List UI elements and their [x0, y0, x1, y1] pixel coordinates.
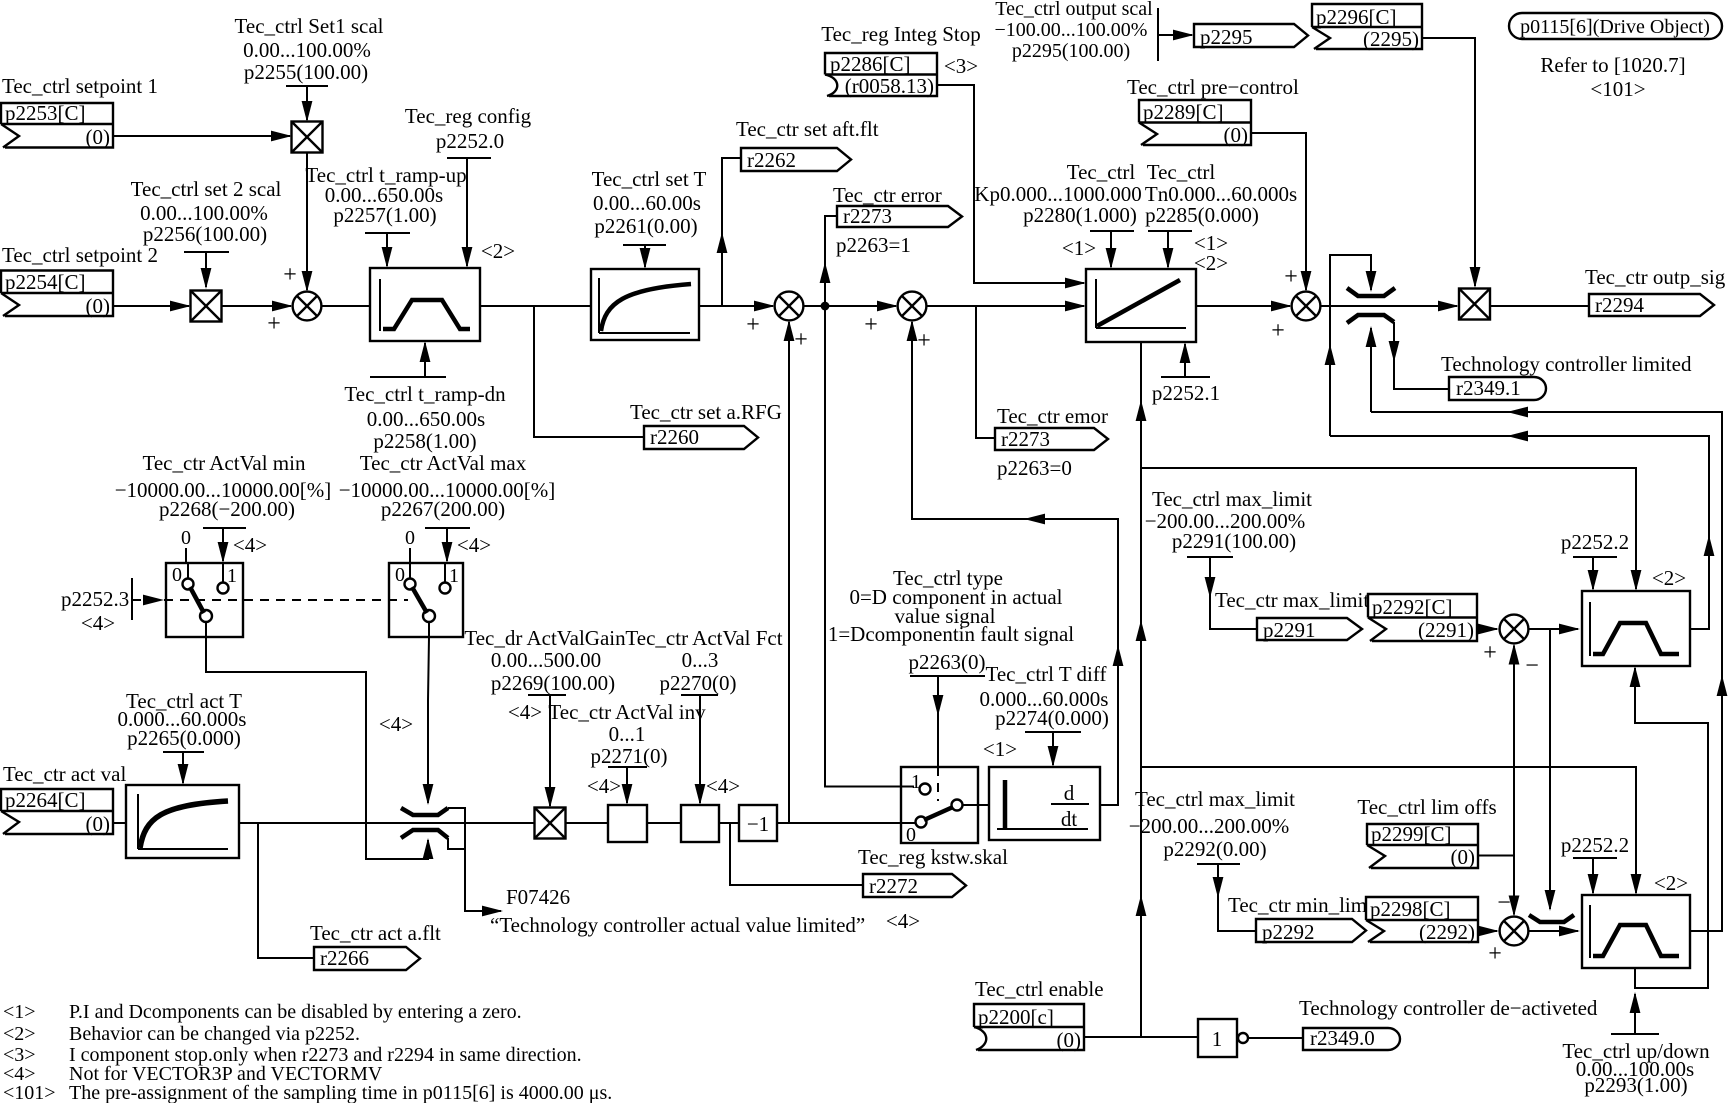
svg-text:1: 1 [1212, 1027, 1223, 1051]
wire p2295 stub to connector [1158, 34, 1192, 36]
svg-text:Tec_ctr act val: Tec_ctr act val [3, 762, 126, 786]
svg-text:p2256(100.00): p2256(100.00) [143, 222, 267, 246]
wire branch to r2260 [534, 306, 644, 437]
wire branch to min clamp [1549, 629, 1551, 909]
parameter connector p2292 [1256, 919, 1366, 944]
svg-text:Tec_ctr set aft.flt: Tec_ctr set aft.flt [736, 117, 879, 141]
multiplier output scaling [1459, 289, 1490, 320]
parameter connector p2291 [1257, 618, 1362, 642]
multiplier setpoint2 [191, 291, 222, 322]
svg-text:p2252.0: p2252.0 [436, 129, 504, 153]
svg-text:p2274(0.000): p2274(0.000) [995, 706, 1109, 730]
wire p2255 to multiplier [306, 86, 308, 120]
connector p2254[C] [1, 270, 113, 318]
switch D-component [901, 767, 989, 846]
ramp block min limit [1582, 895, 1690, 968]
parameter stub p2292 [1197, 863, 1240, 865]
svg-text:r2273: r2273 [1001, 427, 1050, 451]
output connector r2266 [314, 946, 420, 970]
wire p2271 to box [626, 767, 628, 803]
connector p2289[C] [1139, 100, 1251, 147]
svg-text:<101>: <101> [1590, 77, 1645, 101]
wire p2293 distribution [1635, 668, 1708, 988]
connector p2253[C] [1, 101, 113, 149]
svg-text:+: + [746, 312, 760, 338]
svg-text:Tec_ctr min_lim: Tec_ctr min_lim [1228, 893, 1367, 917]
wire p2267 to switch2 [446, 528, 448, 561]
wire p2254 to multiplier [113, 305, 189, 307]
svg-text:0...1: 0...1 [609, 722, 646, 746]
wire PID to summer3 [1196, 305, 1290, 307]
svg-text:Technology controller limited: Technology controller limited [1441, 352, 1692, 376]
summer3 PID+precontrol [1292, 292, 1321, 321]
svg-text:p2253[C]: p2253[C] [5, 101, 86, 125]
wire lower limit feed [1370, 328, 1372, 412]
wire multiplier4 to r2294 [1490, 305, 1589, 307]
wire switch1 output to lower bracket [206, 637, 428, 859]
svg-text:(0): (0) [86, 125, 111, 149]
parameter stub p2295 [1157, 8, 1159, 61]
svg-text:1=Dcomponentin fault signal: 1=Dcomponentin fault signal [828, 622, 1074, 646]
svg-text:Tec_ctrl set T: Tec_ctrl set T [592, 167, 707, 191]
svg-text:0: 0 [181, 527, 191, 549]
svg-text:−100.00...100.00%: −100.00...100.00% [995, 19, 1148, 41]
limiter lower bracket [1347, 315, 1394, 323]
label Tec_ctrl t_ramp-dn [370, 376, 446, 378]
svg-text:1: 1 [227, 565, 237, 587]
svg-text:p2252.2: p2252.2 [1561, 530, 1629, 554]
svg-text:r2273: r2273 [843, 204, 892, 228]
connector p2286[C] [825, 52, 937, 98]
svg-text:p2254[C]: p2254[C] [5, 270, 86, 294]
svg-text:p2264[C]: p2264[C] [5, 788, 86, 812]
svg-text:p2267(200.00): p2267(200.00) [381, 497, 505, 521]
wire summer2 to PID [926, 305, 1084, 307]
svg-text:0.00...500.00: 0.00...500.00 [491, 648, 601, 672]
output connector r2294 [1589, 293, 1714, 317]
svg-text:(2291): (2291) [1418, 618, 1474, 642]
svg-text:Tec_reg config: Tec_reg config [405, 104, 532, 128]
svg-text:(0): (0) [1224, 123, 1249, 147]
svg-text:p2263(0): p2263(0) [909, 650, 986, 674]
wire p2264 to smoothing [113, 822, 126, 824]
switch ActVal max [389, 563, 463, 637]
wire p2252.2 to upper ramp [1592, 557, 1594, 589]
svg-text:p2292(0.00): p2292(0.00) [1163, 837, 1266, 861]
svg-text:Tec_ctr set a.RFG: Tec_ctr set a.RFG [630, 400, 782, 424]
svg-text:<4>: <4> [886, 909, 920, 933]
parameter stub p2293 [1611, 1033, 1659, 1035]
wire p2263 to switch3 [937, 676, 939, 766]
svg-text:p2265(0.000): p2265(0.000) [127, 726, 241, 750]
svg-text:Tec_ctrl set 2 scal: Tec_ctrl set 2 scal [131, 177, 282, 201]
wire smoothing to summer1 [699, 305, 773, 307]
svg-text:Tec_ctr act a.flt: Tec_ctr act a.flt [310, 921, 441, 945]
summer setpoint1+setpoint2 [293, 292, 322, 321]
svg-text:+: + [794, 327, 808, 353]
wire upper limit feed [1330, 255, 1371, 436]
svg-text:r2266: r2266 [320, 946, 369, 970]
svg-text:p2258(1.00): p2258(1.00) [373, 429, 476, 453]
svg-text:+: + [283, 262, 297, 288]
svg-text:p2296[C]: p2296[C] [1316, 5, 1397, 29]
wire p2292 to connector [1218, 864, 1256, 931]
wire branch to r2272 [730, 823, 863, 885]
svg-text:Tec_ctrl pre−control: Tec_ctrl pre−control [1127, 75, 1299, 99]
wire RFG to smoothing [480, 305, 591, 307]
svg-text:0: 0 [405, 527, 415, 549]
box actval function [681, 805, 719, 842]
svg-text:r2294: r2294 [1595, 293, 1644, 317]
wire branch to r2266 [258, 823, 314, 958]
svg-text:p2291: p2291 [1263, 618, 1316, 642]
wire p2289 to summer3 [1251, 133, 1306, 290]
wire summer0 to RFG [321, 305, 370, 307]
parameter stub p2274 [1025, 731, 1081, 733]
svg-text:<2>: <2> [1194, 251, 1228, 275]
svg-text:0.00...100.00%: 0.00...100.00% [243, 38, 371, 62]
svg-text:r2349.1: r2349.1 [1456, 376, 1521, 400]
svg-text:<1>: <1> [983, 737, 1017, 761]
svg-text:Tec_ctr ActVal Fct: Tec_ctr ActVal Fct [625, 626, 782, 650]
output connector r2273 error [837, 204, 962, 228]
wire p2296 to multiplier4 [1422, 38, 1475, 286]
svg-text:−1: −1 [747, 812, 769, 836]
svg-text:Tec_ctrl max_limit: Tec_ctrl max_limit [1152, 487, 1312, 511]
parameter stub p2257 [365, 232, 410, 234]
wire p2280 to PID [1110, 231, 1112, 267]
actval limiter upper bracket [401, 808, 448, 815]
output connector r2260 [644, 425, 758, 449]
svg-text:p2299[C]: p2299[C] [1371, 822, 1452, 846]
svg-text:Tec_reg Integ Stop: Tec_reg Integ Stop [821, 22, 980, 46]
wire p2261 to smoothing [644, 245, 646, 267]
wire multiplier3 to box p2271 [566, 822, 609, 824]
svg-text:0...3: 0...3 [682, 648, 719, 672]
wire summer1 to summer2 [803, 305, 896, 307]
svg-text:Tec_dr ActValGain: Tec_dr ActValGain [464, 626, 626, 650]
svg-text:p2295(100.00): p2295(100.00) [1012, 40, 1130, 62]
svg-text:<4>: <4> [457, 533, 491, 557]
svg-text:p2252.1: p2252.1 [1152, 381, 1220, 405]
svg-text:p2285(0.000): p2285(0.000) [1145, 203, 1259, 227]
svg-text:p2269(100.00): p2269(100.00) [491, 671, 615, 695]
svg-text:Tec_ctrl lim offs: Tec_ctrl lim offs [1357, 795, 1496, 819]
svg-text:p2257(1.00): p2257(1.00) [333, 203, 436, 227]
wire enable branch to upper ramp [1141, 468, 1636, 589]
wire p2269 to multiplier3 [549, 695, 551, 806]
parameter stub p2252.2 upper [1573, 556, 1617, 558]
svg-text:F07426: F07426 [506, 885, 570, 909]
output connector r2349.1 [1449, 376, 1546, 400]
wire limiter fault to F07426 [448, 808, 501, 911]
svg-text:p2293(1.00): p2293(1.00) [1584, 1073, 1687, 1097]
parameter stub p2271 [608, 766, 647, 768]
svg-text:<2>: <2> [1654, 871, 1688, 895]
wire p2256 to multiplier [205, 252, 207, 287]
svg-text:−: − [1497, 890, 1511, 916]
svg-text:<4>: <4> [379, 712, 413, 736]
summer4 max limit [1500, 615, 1529, 644]
wire feedback to summer1 [788, 322, 790, 823]
svg-text:P.I and Dcomponents can be dis: P.I and Dcomponents can be disabled by e… [69, 1001, 522, 1023]
svg-text:Tec_ctrl max_limit: Tec_ctrl max_limit [1135, 787, 1295, 811]
svg-text:Technology controller de−activ: Technology controller de−activeted [1299, 996, 1598, 1020]
svg-text:The pre-assignment of the samp: The pre-assignment of the sampling time … [69, 1082, 612, 1103]
wire p2274 to d/dt [1052, 732, 1054, 765]
summer2 D-component add [898, 292, 927, 321]
svg-text:r2262: r2262 [747, 148, 796, 172]
connector p2296[C] [1312, 4, 1422, 51]
oval p0115 drive object [1509, 13, 1722, 39]
parameter stub p2270 [681, 694, 718, 696]
wire box to box [647, 822, 681, 824]
wire p2200 to NOT gate [1084, 1036, 1198, 1038]
svg-text:Refer to [1020.7]: Refer to [1020.7] [1540, 53, 1685, 77]
svg-text:<4>: <4> [233, 533, 267, 557]
NOT gate [1198, 1019, 1248, 1057]
output connector r2273 second [995, 427, 1108, 451]
wire p2268 to switch1 [222, 528, 224, 561]
actval limiter lower bracket [401, 830, 448, 838]
svg-text:p2295: p2295 [1200, 25, 1253, 49]
svg-text:p2252.2: p2252.2 [1561, 833, 1629, 857]
svg-text:−200.00...200.00%: −200.00...200.00% [1129, 814, 1290, 838]
PID controller block [1086, 269, 1196, 342]
svg-text:Tec_ctrl output scal: Tec_ctrl output scal [995, 0, 1153, 20]
parameter stub p2268 [203, 527, 246, 529]
svg-text:r2349.0: r2349.0 [1310, 1026, 1375, 1050]
wire p2286 to PID upper input [937, 85, 1084, 283]
svg-text:(2295): (2295) [1363, 27, 1419, 51]
wire lower ramp output to limiter bottom [1371, 412, 1722, 931]
wire NOT gate to r2349.0 [1248, 1037, 1303, 1039]
svg-text:d: d [1064, 781, 1075, 805]
wire enable riser [1140, 342, 1142, 1037]
ramp-function generator block [370, 268, 480, 341]
svg-text:p2280(1.000): p2280(1.000) [1023, 203, 1137, 227]
parameter stub p2280 [1090, 230, 1134, 232]
wire offset riser [1513, 646, 1515, 856]
svg-text:Tec_ctrl setpoint 2: Tec_ctrl setpoint 2 [2, 243, 158, 267]
svg-text:Tec_ctrl Set1 scal: Tec_ctrl Set1 scal [235, 14, 384, 38]
svg-text:<1>: <1> [3, 1001, 36, 1023]
svg-text:p0115[6](Drive Object): p0115[6](Drive Object) [1520, 16, 1710, 38]
svg-text:Behavior can be changed via p2: Behavior can be changed via p2252. [69, 1023, 360, 1045]
parameter stub p2252.2 lower [1573, 857, 1617, 859]
wire summer3 through limiter to multiplier4 [1320, 305, 1457, 307]
output connector r2272 [863, 874, 966, 898]
svg-text:Tec_ctrl T diff: Tec_ctrl T diff [986, 662, 1107, 686]
svg-text:p2261(0.00): p2261(0.00) [594, 214, 697, 238]
svg-text:r2272: r2272 [869, 874, 918, 898]
svg-text:(0): (0) [86, 812, 111, 836]
parameter stub p2265 [163, 751, 204, 753]
svg-text:<4>: <4> [706, 774, 740, 798]
wire branch to r2273 second [976, 306, 995, 438]
svg-text:p2263=1: p2263=1 [836, 233, 911, 257]
wire p2291 to connector [1210, 557, 1257, 629]
output connector r2262 [741, 148, 851, 172]
switch ActVal min [166, 563, 243, 637]
svg-text:p2263=0: p2263=0 [997, 456, 1072, 480]
ramp block max limit [1582, 591, 1690, 666]
parameter stub p2267 [425, 527, 470, 529]
svg-text:p2291(100.00): p2291(100.00) [1172, 529, 1296, 553]
svg-text:+: + [1271, 318, 1285, 344]
summer5 min limit [1500, 917, 1529, 946]
wire junction to r2273 [825, 216, 837, 306]
svg-text:<4>: <4> [587, 774, 621, 798]
parameter stub p2285 [1148, 230, 1192, 232]
svg-text:<2>: <2> [481, 239, 515, 263]
svg-text:p2200[c]: p2200[c] [978, 1005, 1054, 1029]
connector p2298[C] [1366, 897, 1478, 944]
svg-text:Tec_reg kstw.skal: Tec_reg kstw.skal [858, 845, 1008, 869]
wire smoothing to actval limiter [239, 822, 535, 824]
svg-text:<101>: <101> [3, 1082, 56, 1103]
svg-text:(0): (0) [1057, 1028, 1082, 1052]
connector p2299[C] [1367, 822, 1478, 869]
wire upper ramp output to limiter top [1330, 436, 1709, 629]
svg-text:p2270(0): p2270(0) [660, 671, 737, 695]
svg-text:p2292[C]: p2292[C] [1372, 595, 1453, 619]
parameter stub p2252.1 [1161, 376, 1210, 378]
wire multiplier2 to summer [222, 305, 292, 307]
svg-text:Tec_ctr outp_sig: Tec_ctr outp_sig [1585, 265, 1726, 289]
wire p2253 to multiplier [113, 135, 290, 137]
multiplier setpoint1 [292, 122, 323, 153]
summer1 setpoint-actual [775, 292, 804, 321]
svg-text:Tec_ctrl t_ramp-dn: Tec_ctrl t_ramp-dn [344, 382, 506, 406]
svg-text:p2252.3: p2252.3 [61, 587, 129, 611]
connector p2292[C] [1368, 594, 1477, 642]
wire p2285 to PID [1167, 231, 1169, 267]
limiter upper bracket [1347, 288, 1395, 296]
wire multiplier1 to summer [306, 153, 308, 291]
parameter stub p2261 [623, 244, 666, 246]
wire p2257 to RFG [386, 233, 388, 266]
svg-text:Tec_ctr max_limit: Tec_ctr max_limit [1215, 588, 1369, 612]
connector p2264[C] [1, 788, 113, 836]
svg-text:Tec_ctr emor: Tec_ctr emor [997, 404, 1108, 428]
smoothing block set T [591, 269, 699, 340]
node error junction [821, 302, 830, 311]
svg-text:dt: dt [1061, 807, 1078, 831]
smoothing block act value [126, 785, 239, 858]
wire switch2 output to upper bracket [428, 637, 429, 803]
svg-text:(0): (0) [86, 294, 111, 318]
block d/dt differentiator [989, 767, 1100, 840]
wire enable branch to lower ramp [1141, 767, 1636, 893]
svg-text:Tec_ctrl: Tec_ctrl [1067, 160, 1136, 184]
parameter stub p2252.0 [447, 157, 491, 159]
box -1 inverter [739, 805, 777, 841]
wire d/dt output to summer2 [912, 322, 1118, 805]
wire p2292C to summer4 [1477, 628, 1497, 630]
svg-text:Tec_ctr ActVal min: Tec_ctr ActVal min [143, 451, 306, 475]
svg-text:Tec_ctrl enable: Tec_ctrl enable [975, 977, 1104, 1001]
wire p2252.0 to RFG [466, 158, 468, 266]
parameter stub p2255 [286, 85, 328, 87]
svg-text:+: + [1284, 264, 1298, 290]
min clamp bracket [1529, 915, 1574, 922]
wire branch to r2262 [722, 158, 741, 306]
wire p2298C to summer5 [1478, 930, 1497, 932]
svg-text:Tec_ctr ActVal max: Tec_ctr ActVal max [360, 451, 527, 475]
svg-text:+: + [864, 312, 878, 338]
svg-text:−: − [1525, 653, 1539, 679]
svg-text:(r0058.13): (r0058.13) [845, 74, 934, 98]
wire -1 to switch3 [777, 822, 915, 824]
svg-text:“Technology controller actual: “Technology controller actual value limi… [490, 913, 865, 937]
svg-text:+: + [1488, 941, 1502, 967]
wire p2299 to offset riser [1478, 855, 1514, 857]
wire error junction to switch3 input1 [825, 306, 914, 787]
wire summer5 to lower ramp [1529, 930, 1579, 932]
svg-text:p2286[C]: p2286[C] [830, 52, 911, 76]
svg-text:p2289[C]: p2289[C] [1143, 100, 1224, 124]
wire p2270 to box [699, 695, 701, 803]
wire summer4 to upper ramp [1529, 628, 1579, 630]
svg-text:+: + [917, 328, 931, 354]
parameter stub p2256 [184, 251, 229, 253]
wire p2252.2 to lower ramp [1592, 858, 1594, 893]
svg-text:(0): (0) [1451, 845, 1476, 869]
svg-text:Tec_ctrl setpoint 1: Tec_ctrl setpoint 1 [2, 74, 158, 98]
svg-text:(2292): (2292) [1419, 920, 1475, 944]
wire p2293 to node [1634, 994, 1636, 1034]
wire p2265 to act smoothing [182, 752, 184, 783]
output connector r2349.0 [1303, 1026, 1400, 1050]
svg-text:0: 0 [172, 564, 182, 586]
box actval inversion [608, 805, 647, 842]
parameter stub p2291 [1187, 556, 1233, 558]
svg-text:Tec_ctr ActVal inv: Tec_ctr ActVal inv [548, 700, 706, 724]
svg-text:r2260: r2260 [650, 425, 699, 449]
svg-text:p2292: p2292 [1262, 920, 1315, 944]
svg-text:0.00...60.00s: 0.00...60.00s [593, 191, 701, 215]
svg-text:p2268(−200.00): p2268(−200.00) [159, 497, 295, 521]
svg-text:p2255(100.00): p2255(100.00) [244, 60, 368, 84]
svg-text:<4>: <4> [81, 611, 115, 635]
svg-text:Tec_ctrl: Tec_ctrl [1147, 160, 1216, 184]
svg-text:0: 0 [906, 824, 916, 846]
svg-text:<4>: <4> [508, 700, 542, 724]
svg-text:0.00...650.00s: 0.00...650.00s [367, 407, 485, 431]
parameter stub p2252.3 [131, 578, 133, 620]
parameter connector p2295 [1194, 24, 1308, 49]
wire limiter flag to r2349.1 [1394, 322, 1449, 389]
svg-text:+: + [1483, 640, 1497, 666]
parameter stub p2269 [528, 694, 566, 696]
parameter stub p2263 [910, 675, 985, 677]
svg-text:<3>: <3> [944, 54, 978, 78]
svg-text:<1>: <1> [1062, 236, 1096, 260]
svg-text:p2298[C]: p2298[C] [1370, 897, 1451, 921]
wire p2252.1 to PID bottom [1184, 344, 1186, 377]
svg-text:+: + [267, 311, 281, 337]
connector p2200[c] [974, 1004, 1084, 1052]
svg-text:1: 1 [449, 565, 459, 587]
svg-text:<2>: <2> [1652, 566, 1686, 590]
multiplier actval gain [535, 808, 566, 839]
dashed control wire p2252.3 [132, 599, 408, 601]
wire box to -1 [719, 822, 739, 824]
svg-text:p2271(0): p2271(0) [591, 744, 668, 768]
svg-text:<2>: <2> [3, 1023, 36, 1045]
